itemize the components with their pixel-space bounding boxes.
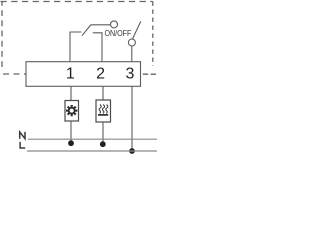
dashed enclosure left edge xyxy=(1,2,3,68)
load box 1 xyxy=(65,101,79,122)
wire load2 to N xyxy=(102,122,104,142)
svg-text:1: 1 xyxy=(66,66,75,83)
wire load1 to N xyxy=(70,121,72,141)
wire to switch contact circle xyxy=(90,24,110,26)
junction dot load1/N xyxy=(68,140,74,146)
gear symbol (cooling/actuator) xyxy=(66,105,77,116)
wire terminal2 to load2 xyxy=(102,86,104,100)
dashed stub left to terminal block xyxy=(3,73,26,75)
dashed enclosure right edge xyxy=(152,2,154,67)
label N xyxy=(20,132,25,139)
switch S1 contact circle xyxy=(111,21,118,28)
svg-text:3: 3 xyxy=(126,66,135,83)
wire terminal1 to load1 xyxy=(70,86,72,100)
switch S1 lever xyxy=(82,25,91,36)
switch S2 (ON/OFF) contact circle xyxy=(128,39,135,46)
wire terminal1 up xyxy=(70,32,81,62)
L line xyxy=(27,150,157,152)
switch S2 lever xyxy=(133,21,141,39)
svg-text:2: 2 xyxy=(96,66,105,83)
wire terminal3 to L xyxy=(131,86,133,151)
wire S2 to terminal 3 xyxy=(131,46,133,62)
terminal block xyxy=(26,62,141,87)
dashed enclosure top edge xyxy=(1,1,153,3)
junction dot load2/N xyxy=(100,141,106,147)
junction dot terminal3/L xyxy=(129,148,135,154)
dashed stub right to terminal block xyxy=(143,73,156,75)
N line xyxy=(28,138,157,140)
load box 2 xyxy=(96,100,111,122)
svg-text:ON/OFF: ON/OFF xyxy=(105,29,132,38)
label L xyxy=(20,142,25,148)
wire contact B to terminal 2 xyxy=(93,33,102,62)
heating symbol xyxy=(98,104,108,114)
